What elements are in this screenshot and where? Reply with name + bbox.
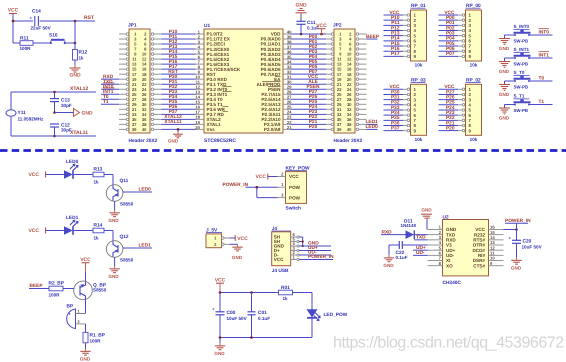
power VCC (KEY_POW pin2) [255,174,277,181]
switch S_INT0 SW-PB [514,24,531,44]
wire C22 to ground [389,245,394,255]
svg-text:GND: GND [295,3,307,9]
svg-text:LED0: LED0 [66,159,79,165]
svg-text:BEEP: BEEP [366,34,380,40]
wire JP1 pin13/14 to U1 pin7 net P16 [162,59,196,65]
wire JP1 pin31/32 to U1 pin16 net P36 [162,104,196,110]
svg-text:LED0: LED0 [366,124,379,130]
transistor Q11 S8550 [106,178,133,206]
svg-text:3: 3 [281,192,284,197]
wire JP1 pin37/38 to U1 pin19 net XTAL11 [162,119,196,125]
junction POWER_IN node [515,228,518,231]
junction S10/R12 [74,42,77,45]
net label P21 (RP_02) [439,120,459,126]
wire R11 to S10 [33,42,51,44]
svg-text:POW: POW [289,195,301,200]
wire U1 pin38 to JP2 net P01 [291,39,326,45]
wire U1 pin36 to JP2 net P03 [291,49,326,55]
net label VCC (RP_00) [439,10,459,16]
power VCC (LED0 circuit) [28,172,46,179]
net label P26 (RP_02) [439,94,459,100]
net label P37 (RP_03) [384,125,404,131]
svg-text:GND: GND [499,46,510,51]
junction at RST rail / R12 [74,20,77,23]
connector JP2 Header 20X2 [326,23,367,145]
power VCC (reset circuit) [8,8,19,22]
svg-text:P32: P32 [391,100,400,106]
wire SH pins to GND net [299,237,303,246]
switch S10 [49,33,66,45]
wire R01 to LED_POW [293,293,313,310]
net label P27 (RP_02) [439,89,459,95]
svg-text:XO: XO [446,263,453,268]
net label T1 (JP1 left) [101,99,119,105]
wire J_5V pin2 to ground [230,243,238,245]
net label P00 (RP_00) [439,15,459,21]
net label P07 (RP_00) [439,51,459,57]
net label P16 (RP_01) [384,46,404,52]
wire JP1 pin15/16 to U1 pin8 net P17 [162,64,196,70]
wire U1 pin25 to JP2 net P24 [291,104,326,110]
svg-text:P10: P10 [391,15,400,21]
svg-text:T1: T1 [103,99,109,105]
svg-text:INT0: INT0 [539,30,550,36]
svg-text:P24: P24 [446,105,455,111]
junction Vss row [177,128,180,131]
svg-text:UD+: UD+ [416,245,426,251]
junction C11 on VDD rail [300,33,303,36]
wire JP1 pin19/20 to U1 pin10 net P30 [162,74,196,80]
net label P30 (RP_03) [384,89,404,95]
crystal Y11 [6,110,44,122]
svg-text:1: 1 [78,309,80,313]
switch S_T1 SW-PB [514,94,531,114]
net label P12 (RP_01) [384,25,404,31]
wire S10 to R12 node [65,42,75,44]
net label P24 (RP_02) [439,105,459,111]
wire S_INT1 left to ground [505,58,516,62]
svg-text:VCC: VCC [389,10,400,16]
svg-text:100R: 100R [49,293,61,298]
svg-text:39: 39 [337,127,342,132]
wire crystal left branch [10,92,12,136]
resistor R01 1k [279,285,293,301]
svg-text:J4 USB: J4 USB [272,268,289,274]
svg-text:P03: P03 [446,30,455,36]
LED LED_POW [307,309,348,321]
net label P13 (RP_01) [384,30,404,36]
capacitor C14 [30,9,52,31]
svg-text:1k: 1k [79,56,85,61]
net label P05 (RP_00) [439,41,459,47]
svg-text:S8550: S8550 [93,288,107,293]
net label UD- (U2) [413,250,428,256]
resistor pack RP_02 10k [458,77,482,142]
wire JP1 pin33/34 to U1 pin17 net P37 [162,109,196,115]
net label TXD (JP1 left) [101,79,119,85]
net label P06 (RP_00) [439,46,459,52]
svg-text:P17: P17 [391,51,400,57]
junction top / C13 [53,91,56,94]
ground (C11, flipped) [295,3,307,15]
net label T0 (JP1 left) [101,94,119,100]
svg-text:GND: GND [421,208,432,213]
svg-text:Q11: Q11 [120,178,129,184]
svg-text:40: 40 [142,127,147,132]
net label P32 (RP_03) [384,100,404,106]
svg-text:P02: P02 [446,25,455,31]
net label INT0 [529,29,553,36]
svg-text:RST: RST [84,15,94,21]
wire U1 pin39 to JP2 net P00 [291,34,326,40]
svg-text:P27: P27 [446,89,455,95]
svg-text:R2_BP: R2_BP [49,280,65,286]
wire JP1 pin11/12 to U1 pin6 net P15 [162,54,196,60]
svg-text:https://blog.csdn.net/qq_45396: https://blog.csdn.net/qq_45396672 [333,335,564,352]
wire JP1 pin9/10 to U1 pin5 net P14 [162,49,196,55]
svg-text:1N4148: 1N4148 [401,223,417,228]
net label P36 (RP_03) [384,120,404,126]
wire U1 pin26 to JP2 net P25 [291,99,326,105]
wire U2 VCC to POWER_IN node [504,229,517,231]
junction C00 top [219,291,222,294]
svg-text:SW-PB: SW-PB [514,85,529,90]
svg-text:GND: GND [108,274,119,279]
svg-text:P22: P22 [446,115,455,121]
wire JP1 pin21/22 to U1 pin11 net P31 [162,79,196,85]
svg-text:C14: C14 [32,9,41,15]
svg-text:9: 9 [490,261,493,266]
net label P20 (RP_02) [439,125,459,131]
wire U1 pin22 to JP2 net P21 [291,119,326,125]
net label RST [84,15,94,21]
svg-text:S_INT1: S_INT1 [514,47,530,52]
svg-text:VCC: VCC [316,23,327,29]
wire S_T1 left to ground [505,105,516,109]
wire U1 pin37 to JP2 net P02 [291,44,326,50]
wire U1 pin31 to JP2 net VCC [291,74,326,80]
svg-text:VCC: VCC [80,257,91,263]
wire U1 pin24 to JP2 net P23 [291,109,326,115]
net label T1 [529,99,553,105]
net label P23 (RP_02) [439,110,459,116]
svg-text:P13: P13 [391,30,400,36]
ground (S_T1) [499,108,510,121]
svg-text:GND: GND [214,351,225,356]
net label P25 (RP_02) [439,100,459,106]
junction C01 bottom [250,336,253,339]
capacitor C00 10uF 50V [212,293,248,338]
power VCC (LED1 circuit) [28,228,46,235]
svg-text:P2.0/A8: P2.0/A8 [264,127,281,132]
svg-text:S10: S10 [49,33,58,39]
wire U1 pin30 to JP2 net ALE [291,79,326,85]
svg-text:GND: GND [511,266,522,271]
svg-text:R11: R11 [20,36,29,42]
svg-text:POWER_IN: POWER_IN [223,182,249,188]
svg-text:VCC: VCC [215,278,226,284]
svg-text:S8550: S8550 [120,257,134,262]
svg-text:P26: P26 [446,94,455,100]
power VCC (filter) [215,278,226,293]
net label POWER_IN (J4) [299,254,334,260]
buzzer BP [67,304,86,329]
svg-text:1: 1 [281,182,284,187]
wire R13 to Q11 [104,175,113,186]
svg-text:JP1: JP1 [128,23,137,29]
wire Q11 base to net LED0 [123,186,152,192]
svg-text:22uF 50V: 22uF 50V [31,26,52,31]
svg-text:VCC: VCC [28,172,39,178]
wire filter top rail [220,292,279,294]
switch module KEY_POW [278,165,310,211]
resistor R13 1k [93,167,104,185]
net label P35 (RP_03) [384,115,404,121]
wire JP1 pin39/40 to U1 pin20 [162,128,196,130]
svg-text:GND: GND [232,255,243,260]
svg-text:LED0: LED0 [139,186,152,192]
svg-text:10k: 10k [415,63,423,68]
net label POWER_IN (KEY_POW) [223,182,278,188]
wire U1 pin34 to JP2 net P05 [291,59,326,65]
svg-text:VCC: VCC [255,174,266,180]
ground (reset) [69,65,81,79]
ground (C20) [511,258,522,271]
svg-text:0.1uF: 0.1uF [258,316,270,321]
net label UD- (J4) [299,250,331,256]
svg-text:10uF 50V: 10uF 50V [227,316,248,321]
svg-text:P20: P20 [309,124,318,130]
svg-text:+: + [30,16,33,21]
resistor pack RP_00 10k [458,3,482,68]
svg-text:GND: GND [80,357,91,362]
wire Vss to ground [177,129,179,131]
junction bottom / C12 [53,135,56,138]
svg-text:Header 20X2: Header 20X2 [334,138,363,144]
resistor R14 1k [93,223,104,241]
wire JP1 pin7/8 to U1 pin4 net P13 [162,44,196,50]
wire LED0 to R13 [73,174,93,176]
svg-text:P07: P07 [446,51,455,57]
svg-text:LED_POW: LED_POW [324,312,348,318]
svg-text:10k: 10k [470,63,478,68]
svg-text:+: + [68,312,71,318]
svg-text:VCC: VCC [289,174,299,179]
wire VCC to LED0 [46,174,65,176]
wire JP1 pin29/30 to U1 pin15 net P35 [162,99,196,105]
svg-text:UD-: UD- [416,250,425,256]
wire LED_POW to bottom rail [220,317,312,337]
svg-text:TXD: TXD [416,235,426,241]
ground (filter) [214,343,225,356]
net label P22 (RP_02) [439,115,459,121]
svg-text:GND: GND [499,69,510,74]
svg-text:+: + [509,236,512,241]
svg-text:R01: R01 [281,285,290,291]
svg-text:P36: P36 [391,120,400,126]
svg-text:GND: GND [168,139,179,144]
net label P02 (RP_00) [439,25,459,31]
junction C01 top [250,291,253,294]
resistor R2_BP 100R [49,280,65,297]
LED LED1 [64,215,79,235]
svg-text:POWER_IN: POWER_IN [308,254,334,260]
wire JP1 pin5/6 to U1 pin3 net P12 [162,39,196,45]
svg-text:LED1: LED1 [139,242,152,248]
svg-text:P16: P16 [391,46,400,52]
svg-text:10uF 50V: 10uF 50V [522,244,543,249]
svg-text:Header 20X2: Header 20X2 [129,138,158,144]
wire R2_BP to Q_BP base [63,288,75,290]
switch S_T0 SW-PB [514,70,531,90]
net label LED0 (JP2) [366,124,379,130]
svg-text:Y11: Y11 [18,110,27,116]
svg-text:CTS#: CTS# [473,263,485,268]
wire JP1 pin23/24 to U1 pin12 net P32 [162,84,196,90]
net label RXD (JP1 left) [101,74,119,80]
net label P11 (RP_01) [384,20,404,26]
power VCC (VDD rail) [316,23,327,34]
wire S_T0 left to ground [505,81,516,85]
wire U1 pin33 to JP2 net P06 [291,64,326,70]
net label P04 (RP_00) [439,36,459,42]
wire JP1 pin3/4 to U1 pin2 net P11 [162,34,196,40]
wire S_INT0 left to ground [505,35,516,39]
wire left branch down to R11 [12,21,14,43]
ground (C22) [383,255,394,268]
resistor pack RP_01 10k [403,3,427,68]
LED LED0 [64,159,79,179]
svg-text:Q12: Q12 [120,234,129,240]
ground (S_INT1) [499,62,510,75]
svg-text:XTAL12: XTAL12 [70,86,88,92]
svg-text:40: 40 [347,127,352,132]
junction VCC on VDD rail [320,33,323,36]
wire JP1 pin35/36 to U1 pin18 net XTAL12 [162,114,196,120]
IC U2 CH340C [428,214,504,286]
svg-text:GND: GND [383,263,394,268]
ground (Q12) [108,266,119,279]
svg-text:RXD: RXD [382,229,393,235]
capacitor C12 [50,122,72,136]
svg-text:Switch: Switch [286,205,302,211]
svg-text:U1: U1 [204,23,210,29]
junction C00 bottom [219,336,222,339]
svg-text:P00: P00 [446,15,455,21]
net label UD+ (J4) [299,245,331,251]
dashed section divider [0,149,566,152]
svg-text:VCC: VCC [274,257,284,262]
svg-text:+: + [212,307,215,312]
diode D11 1N4148 [401,218,417,239]
wire VCC to LED1 [46,230,65,232]
svg-text:VCC: VCC [389,84,400,90]
svg-text:INT1: INT1 [539,53,550,59]
svg-text:1k: 1k [94,180,100,185]
svg-text:P34: P34 [391,110,400,116]
svg-text:P06: P06 [446,46,455,52]
ground (U2 pin1) [421,208,432,230]
svg-text:VCC: VCC [444,84,455,90]
wire U1 pin28 to JP2 net P27 [291,89,326,95]
net label POWER_IN (U2) [505,218,531,230]
wire buzzer pin2 down [85,324,87,332]
net label XTAL11 [70,130,88,136]
svg-text:POWER_IN: POWER_IN [505,218,531,224]
net label BEEP (buzzer) [29,283,49,289]
net label INT1 [529,52,553,59]
svg-text:P23: P23 [446,110,455,116]
svg-text:GND: GND [82,111,94,117]
svg-text:T1: T1 [539,99,545,105]
ground (Q11) [108,210,119,223]
resistor R12 [73,50,88,61]
svg-text:R14: R14 [94,223,103,229]
svg-text:P25: P25 [446,100,455,106]
junction VCC top-left [12,20,15,23]
svg-text:VCC: VCC [237,236,248,242]
svg-text:P04: P04 [446,36,455,42]
wire bottom rail to ground [219,338,221,344]
junction mid crystal [53,111,56,114]
svg-text:39: 39 [132,127,137,132]
svg-text:S_INT0: S_INT0 [514,24,530,29]
net label P01 (RP_00) [439,20,459,26]
wire Q11 emitter to ground [114,201,116,210]
wire U1 pin27 to JP2 net P26 [291,94,326,100]
svg-text:P20: P20 [446,125,455,131]
svg-text:LED1: LED1 [66,215,79,221]
wire U1 pin29 to JP2 net PSEN [291,84,326,90]
svg-text:GND: GND [69,73,81,79]
junction POWER_IN [255,186,258,189]
svg-text:8: 8 [439,261,442,266]
svg-text:GND: GND [108,218,119,223]
svg-text:P21: P21 [446,120,455,126]
net label P34 (RP_03) [384,110,404,116]
svg-text:R13: R13 [94,167,103,173]
wire Q12 base to net LED1 [123,242,152,248]
svg-text:SW-PB: SW-PB [514,108,529,113]
net label VCC (RP_03) [384,84,404,90]
connector J4 USB [272,226,299,274]
wire crystal bottom rail [11,135,96,137]
svg-text:VCC: VCC [8,8,19,14]
svg-text:T0: T0 [539,76,545,82]
ground (J_5V) [232,244,243,260]
capacitor C22 0.1uF [394,241,428,260]
net label LED1 (JP2) [366,119,379,125]
capacitor C20 10uF 50V [509,230,543,258]
svg-text:S_T1: S_T1 [514,94,525,99]
transistor Q_BP S8550 [74,281,107,300]
ground (U1 Vss) [168,132,183,144]
connector JP1 Header 20X2 [119,23,162,145]
svg-text:POW: POW [289,185,301,190]
net label VCC (RP_01) [384,10,404,16]
svg-text:P12: P12 [391,25,400,31]
net label GND (J4) [299,241,331,247]
svg-text:P31: P31 [391,94,400,100]
svg-text:P33: P33 [391,105,400,111]
resistor R1_BP 100R [83,332,106,343]
wire R14 to Q12 [104,231,113,242]
svg-text:GND: GND [499,116,510,121]
svg-text:11.0592MHz: 11.0592MHz [18,117,44,122]
svg-text:BP: BP [67,304,74,310]
svg-text:STC89C52RC: STC89C52RC [204,138,236,144]
capacitor C11 [297,15,320,35]
